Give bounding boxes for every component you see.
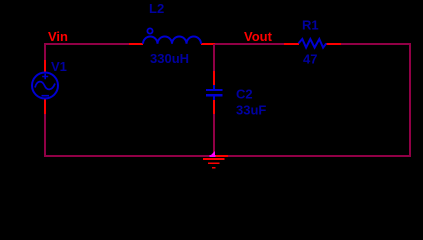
- svg-text:V1: V1: [51, 59, 67, 74]
- label 330uH: [150, 51, 189, 66]
- label L2: [149, 1, 164, 16]
- label V1: [51, 59, 67, 74]
- wire L2 right lead: [201, 43, 215, 45]
- svg-text:R1: R1: [302, 18, 319, 33]
- wire capacitor branch lower: [213, 114, 215, 155]
- wire capacitor branch upper: [213, 44, 215, 72]
- wire V1 top lead: [44, 60, 46, 73]
- wire left vertical upper: [44, 43, 46, 61]
- label C2: [236, 87, 253, 102]
- wire C2 top lead: [213, 71, 215, 86]
- capacitor C2: [206, 85, 223, 100]
- node label Vout: [244, 29, 273, 44]
- wire top-right horizontal: [341, 43, 411, 45]
- wire C2 bottom lead: [213, 99, 215, 115]
- svg-text:C2: C2: [236, 87, 253, 102]
- ground: [203, 155, 228, 169]
- svg-text:L2: L2: [149, 1, 164, 16]
- voltage source V1: [32, 73, 58, 99]
- resistor R1: [299, 39, 327, 48]
- svg-text:47: 47: [303, 52, 317, 67]
- wire bottom horizontal: [44, 155, 411, 157]
- svg-text:Vin: Vin: [48, 29, 68, 44]
- wire R1 right lead: [326, 43, 341, 45]
- inductor L2: [143, 37, 201, 44]
- wire R1 left lead: [284, 43, 299, 45]
- label 47: [303, 52, 317, 67]
- ground node marker: [210, 151, 216, 157]
- label R1: [302, 18, 319, 33]
- wire top-left horizontal Vin net: [44, 43, 129, 45]
- svg-text:33uF: 33uF: [236, 103, 266, 118]
- svg-text:330uH: 330uH: [150, 51, 189, 66]
- wire left vertical lower: [44, 114, 46, 157]
- label 33uF: [236, 103, 266, 118]
- svg-text:Vout: Vout: [244, 29, 273, 44]
- wire Vout net horizontal: [215, 43, 285, 45]
- wire right vertical: [409, 43, 411, 157]
- node label Vin: [48, 29, 68, 44]
- wire L2 left lead: [129, 43, 143, 45]
- wire V1 bottom lead: [44, 98, 46, 115]
- L2 phase dot: [147, 28, 152, 33]
